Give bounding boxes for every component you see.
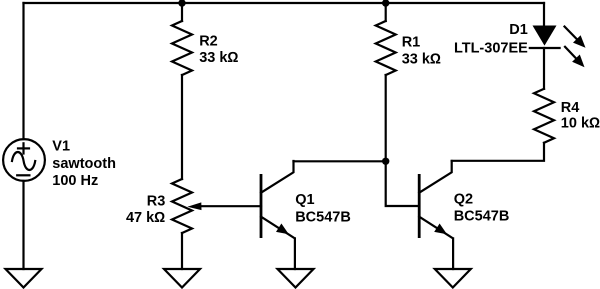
resistor R2 (172, 21, 192, 75)
LED light emission arrow 1 (565, 27, 586, 48)
node junction dot B (R1 / Q1 collector / Q2 base) (382, 158, 389, 165)
label Q2 value (454, 191, 510, 224)
resistor R4 (534, 89, 554, 143)
node junction dot A (rail / R2) (178, 0, 185, 7)
svg-text:LTL-307EE: LTL-307EE (454, 40, 528, 56)
svg-text:BC547B: BC547B (454, 209, 510, 225)
svg-text:33 kΩ: 33 kΩ (199, 50, 238, 66)
svg-text:33 kΩ: 33 kΩ (402, 52, 441, 68)
ground under V1 (6, 269, 42, 288)
wire R2 bottom to R3 top (181, 75, 183, 179)
LED light emission arrow 2 (565, 47, 585, 67)
wire node B down to Q2 base (386, 161, 420, 206)
wire top rail (24, 2, 545, 4)
svg-text:D1: D1 (509, 22, 528, 38)
label V1 value (52, 139, 116, 189)
wire Q2 collector to R4 bottom (452, 143, 544, 161)
ground under Q2 (435, 269, 471, 288)
wire R1 bottom to node B (385, 75, 387, 161)
label D1 value (454, 22, 528, 56)
wire left vertical from rail to V1 (22, 3, 24, 139)
potentiometer R3 (172, 179, 192, 233)
label R3 value (126, 193, 165, 226)
node junction dot top (rail / R1) (382, 0, 389, 7)
svg-text:10 kΩ: 10 kΩ (561, 115, 600, 131)
label R2 value (199, 33, 238, 66)
ground under R3 (164, 269, 200, 288)
ground under Q1 (278, 269, 314, 288)
LED D1 (530, 3, 560, 48)
svg-text:sawtooth: sawtooth (52, 156, 116, 172)
wire Q1 collector to node B (294, 160, 386, 162)
svg-text:Q2: Q2 (454, 191, 473, 207)
svg-text:R4: R4 (561, 100, 580, 116)
wire V1 bottom to ground (22, 181, 24, 269)
label R4 value (561, 100, 600, 131)
resistor R1 (376, 21, 396, 75)
wire R4 top to LED cathode (543, 48, 545, 89)
svg-text:47 kΩ: 47 kΩ (126, 210, 165, 226)
voltage source V1 (3, 139, 45, 181)
wire R3 bottom to ground (181, 233, 183, 269)
label Q1 value (295, 192, 351, 225)
svg-text:R3: R3 (147, 193, 166, 209)
R3 wiper arrow (to Q1 base) (187, 202, 261, 210)
svg-text:R1: R1 (402, 35, 421, 51)
svg-text:V1: V1 (52, 139, 70, 155)
wire rail to R2 (181, 3, 183, 21)
wire rail to R1 (385, 3, 387, 21)
transistor Q1 (261, 161, 295, 269)
svg-text:R2: R2 (199, 33, 218, 49)
label R1 value (402, 35, 441, 68)
transistor Q2 (419, 161, 453, 269)
svg-text:100 Hz: 100 Hz (52, 173, 98, 189)
svg-text:Q1: Q1 (295, 192, 314, 208)
svg-text:BC547B: BC547B (295, 209, 351, 225)
